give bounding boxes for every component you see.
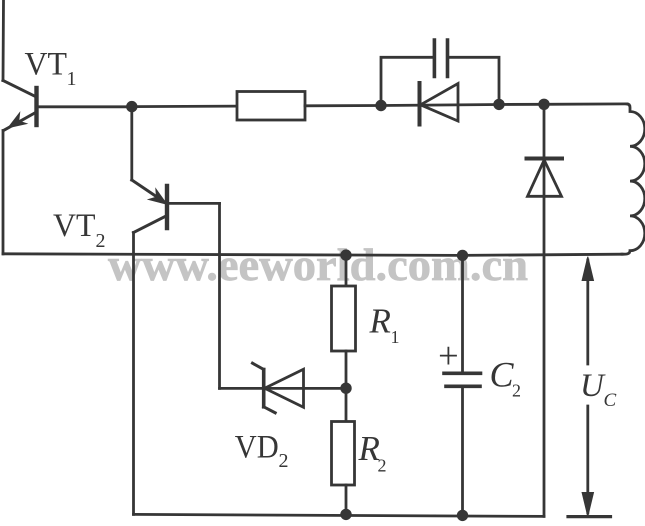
resistor R1: [332, 286, 356, 351]
transistor VT2: [132, 107, 220, 233]
inductor L coil: [622, 104, 645, 254]
node F junction dot (mid rail / R1 top): [340, 249, 351, 260]
zener diode VD2: [253, 363, 304, 413]
svg-text:2: 2: [378, 456, 387, 476]
node E junction dot: [340, 383, 351, 394]
Uc arrow shaft upper: [586, 260, 589, 364]
wire: node C to node D: [499, 103, 544, 106]
wire: left rail bottom segment: [2, 131, 5, 254]
C2 polarity plus sign: [441, 348, 456, 364]
node C junction dot: [493, 99, 504, 110]
label R2: [358, 429, 387, 475]
svg-text:C: C: [490, 355, 515, 395]
label Uc: [580, 368, 617, 411]
capacitor C1 branch wires: [381, 57, 499, 105]
svg-text:2: 2: [512, 381, 521, 401]
wire: node D down through diode branch to bottom rail: [543, 104, 546, 516]
wire: R2 to bottom rail: [345, 485, 348, 514]
wire: zener lead across to node E: [220, 387, 347, 390]
node B junction dot: [375, 100, 386, 111]
node A junction dot: [126, 101, 137, 112]
diode VD3 (vertical, cathode up): [527, 159, 563, 197]
wire: mid rail: [3, 254, 622, 256]
Uc bottom reference bar: [568, 515, 611, 518]
wire: resistor to node B: [305, 104, 381, 107]
wire: C2 to bottom rail: [461, 386, 464, 515]
Uc arrow head up: [582, 257, 593, 281]
wire: node A to resistor: [132, 105, 237, 108]
wire: bottom rail: [134, 514, 545, 516]
wire: left rail top segment: [2, 0, 5, 81]
node H junction dot (mid rail / C2 top): [457, 250, 468, 261]
svg-text:VT: VT: [53, 208, 96, 244]
label VT2: [53, 208, 106, 252]
Uc arrow head down: [582, 493, 593, 517]
wire: VT2 collector down to bottom rail: [132, 233, 135, 515]
transistor VT1: [3, 81, 37, 131]
wire: VT1 base to node A: [39, 105, 132, 108]
svg-text:1: 1: [391, 327, 400, 347]
label VT1: [25, 47, 77, 90]
label R1: [369, 302, 400, 347]
capacitor C1 plates: [434, 40, 447, 77]
svg-text:www.eeworld.com.cn: www.eeworld.com.cn: [108, 239, 528, 290]
svg-text:1: 1: [67, 68, 77, 90]
svg-text:VT: VT: [25, 47, 68, 83]
node I junction dot (bottom rail): [457, 510, 468, 521]
wire: node E to R2: [345, 388, 348, 421]
capacitor C2 plates: [444, 373, 481, 386]
svg-text:2: 2: [279, 450, 289, 472]
label VD2: [235, 430, 289, 472]
label C2: [490, 355, 522, 401]
node G junction dot (bottom rail): [340, 509, 351, 520]
wire: R1 to node E: [345, 351, 348, 388]
svg-text:C: C: [604, 390, 617, 411]
diode VD1 (freewheel, horizontal, cathode left): [420, 83, 459, 125]
resistor R2: [332, 422, 355, 486]
svg-text:U: U: [580, 368, 606, 404]
wire: node D to coil: [544, 103, 627, 106]
wire: node H to C2: [461, 255, 464, 373]
wire: node F to R1: [345, 255, 348, 286]
svg-text:2: 2: [96, 230, 106, 252]
wire: VT2 base down to zener: [218, 203, 221, 388]
node D junction dot: [538, 99, 549, 110]
svg-text:R: R: [369, 302, 391, 341]
resistor R (series, unlabeled): [237, 92, 305, 121]
svg-text:VD: VD: [235, 430, 279, 466]
wire: node B to diode VD1 and through to node C: [381, 105, 499, 106]
Uc arrow shaft lower: [586, 406, 589, 513]
